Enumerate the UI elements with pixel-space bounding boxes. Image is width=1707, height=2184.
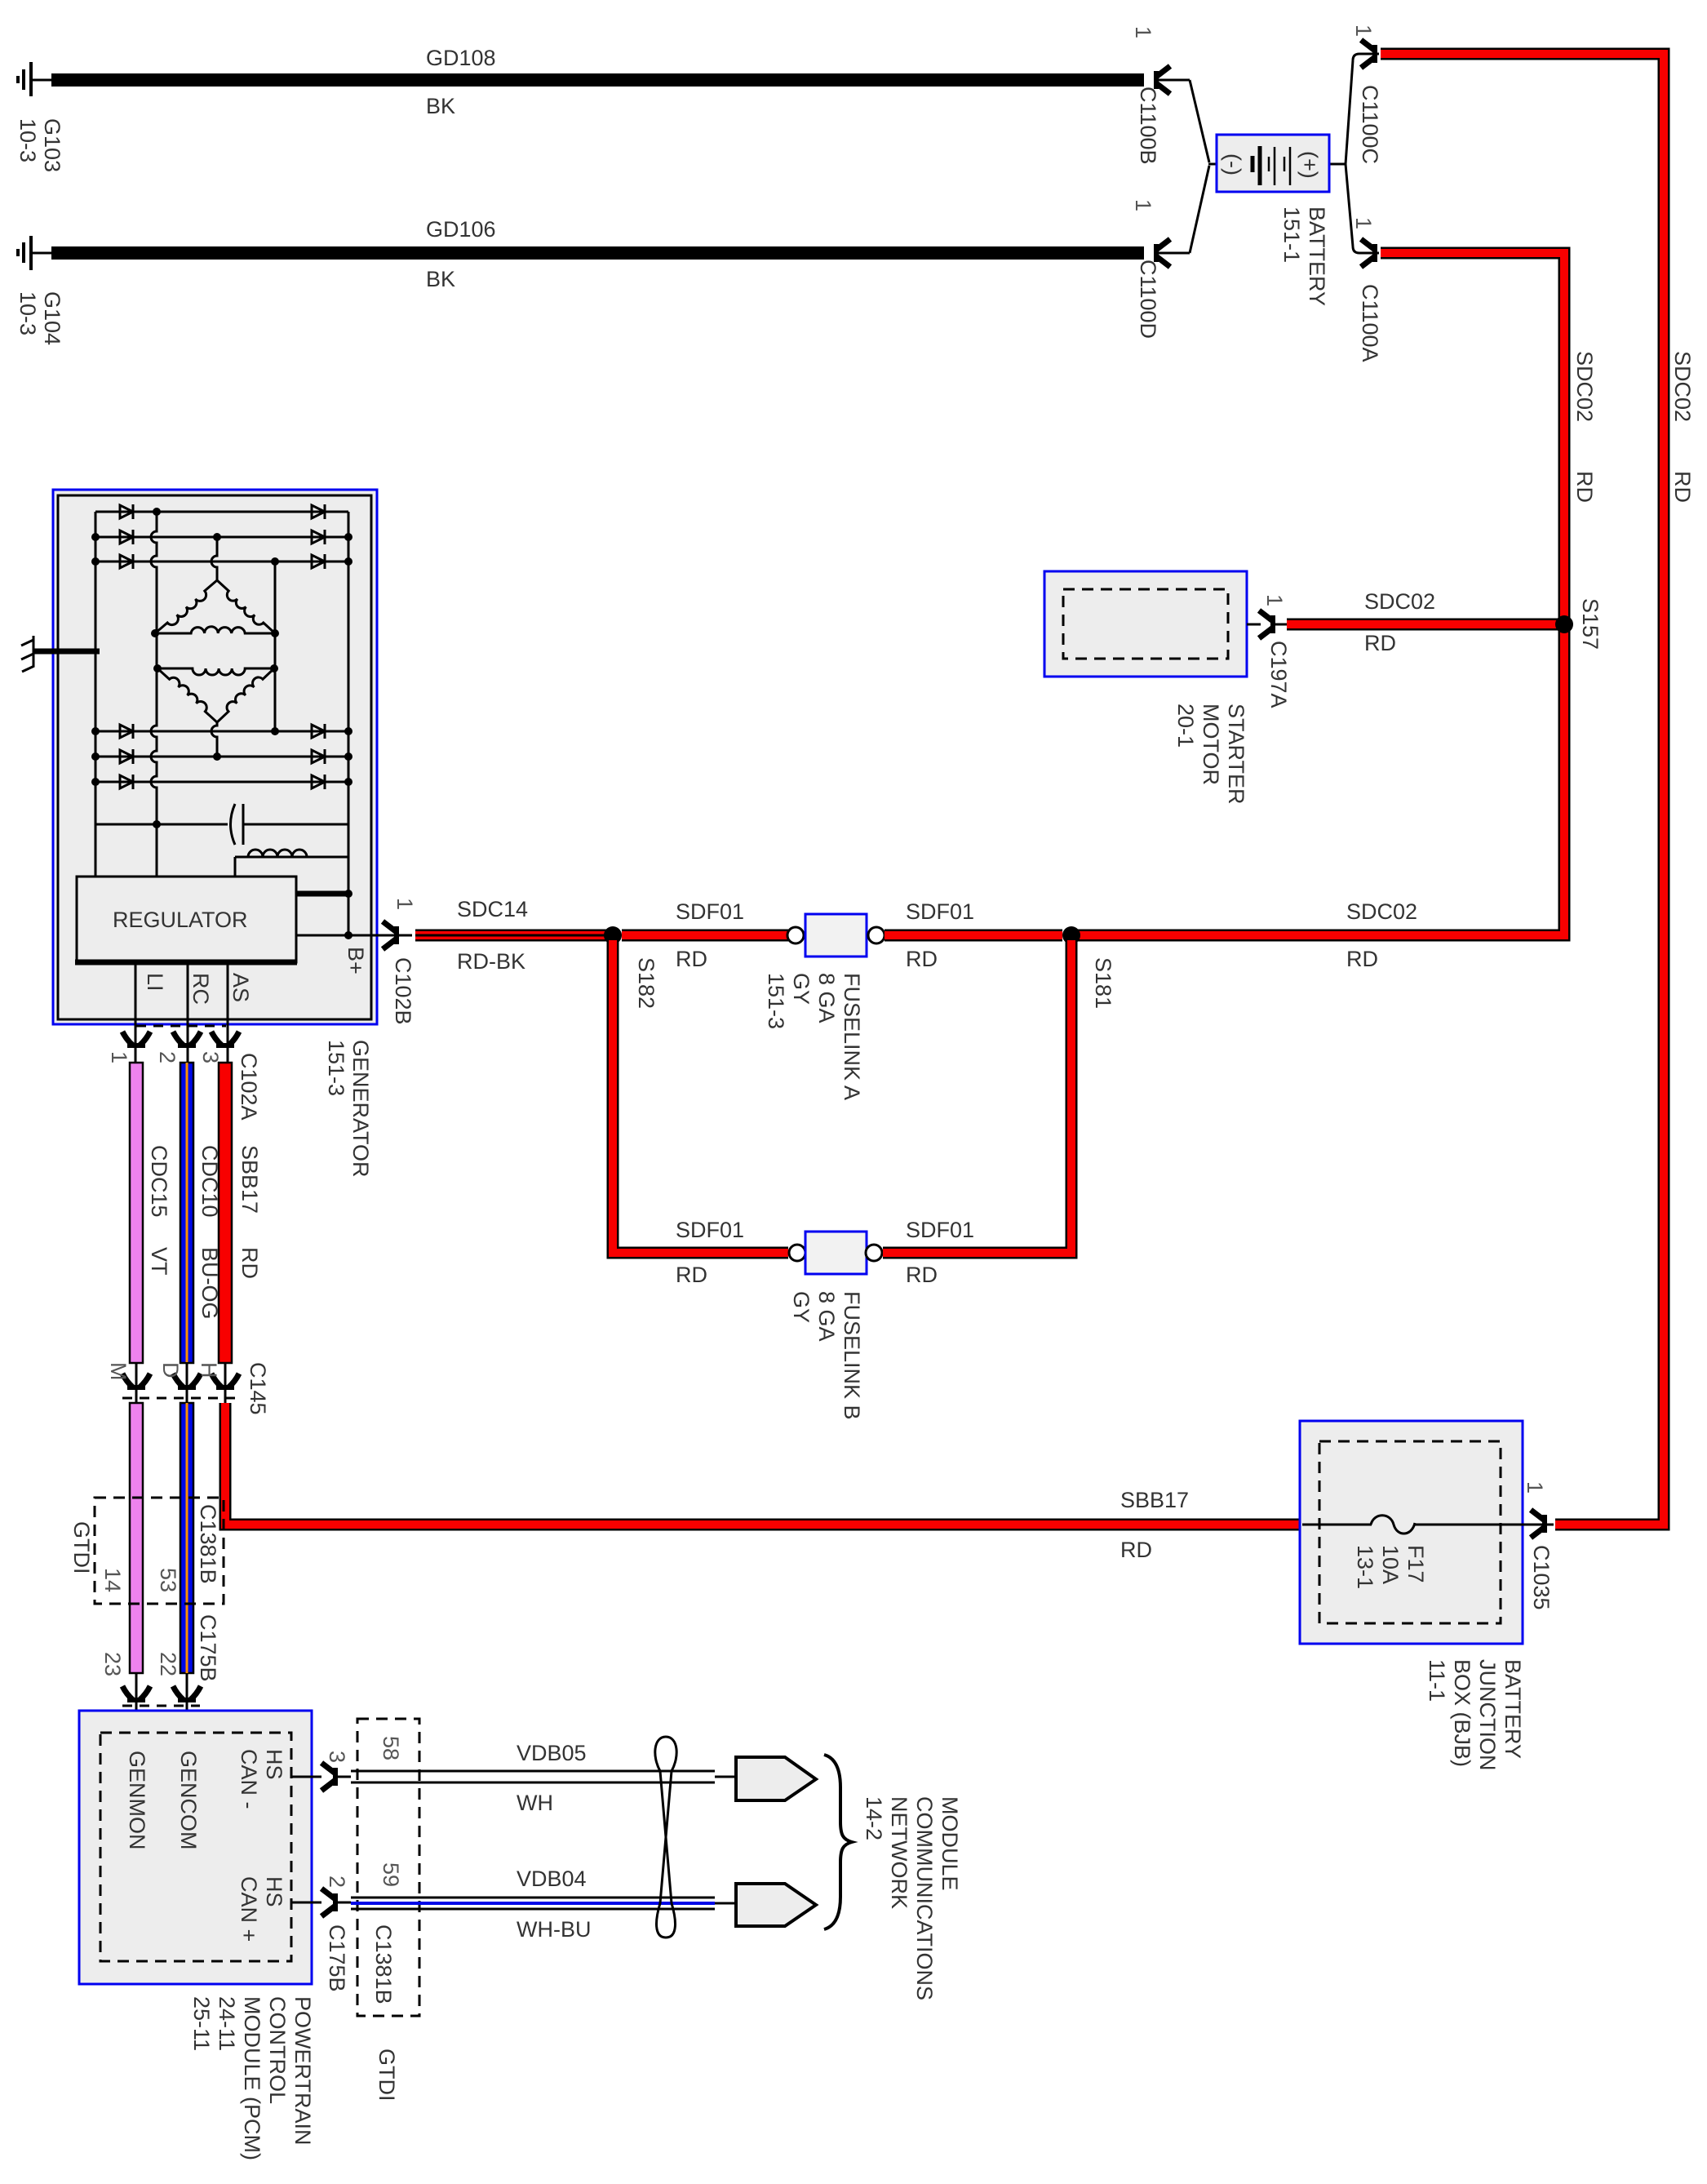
connector C145 xyxy=(106,1362,270,1415)
fuselink B xyxy=(789,1232,882,1274)
svg-text:REGULATOR: REGULATOR xyxy=(113,908,248,932)
connector C175B pin 3 HS CAN - xyxy=(291,1751,351,1791)
stator delta winding upper xyxy=(155,580,275,633)
svg-text:RC: RC xyxy=(188,973,213,1005)
ground G104 xyxy=(18,236,54,270)
connector C197A xyxy=(1247,594,1291,708)
junction S157 xyxy=(1555,615,1573,633)
svg-text:58: 58 xyxy=(379,1736,403,1760)
svg-text:C1035: C1035 xyxy=(1529,1545,1554,1610)
svg-text:WH-BU: WH-BU xyxy=(517,1917,591,1942)
fuse F17 10A xyxy=(1302,1516,1554,1534)
svg-text:3: 3 xyxy=(325,1751,349,1763)
wire SDC14 RD-BK xyxy=(415,930,610,942)
connector C175B arrows xyxy=(122,1673,201,1733)
svg-text:53: 53 xyxy=(156,1568,180,1592)
svg-text:AS: AS xyxy=(228,973,253,1002)
svg-text:14: 14 xyxy=(100,1568,125,1592)
wire GD106 BK xyxy=(51,246,1144,260)
junction S181 xyxy=(1062,926,1080,944)
svg-text:C1381B: C1381B xyxy=(371,1924,396,2004)
svg-text:GTDI: GTDI xyxy=(375,2049,399,2102)
svg-text:RD: RD xyxy=(237,1247,262,1279)
svg-text:1: 1 xyxy=(1131,26,1155,38)
generator junction dots xyxy=(91,508,352,939)
brace module communications network xyxy=(824,1755,852,1929)
network flag VDB05 xyxy=(736,1757,816,1800)
svg-text:SDF01: SDF01 xyxy=(906,899,974,924)
svg-text:RD: RD xyxy=(1120,1538,1152,1562)
svg-text:WH: WH xyxy=(517,1791,553,1815)
svg-text:GENMON: GENMON xyxy=(125,1751,149,1850)
svg-text:23: 23 xyxy=(100,1652,125,1676)
svg-text:RD: RD xyxy=(676,1263,707,1287)
regulator pins LI RC AS xyxy=(135,962,228,1063)
svg-text:RD: RD xyxy=(906,1263,938,1287)
svg-text:RD: RD xyxy=(676,947,707,971)
wire CDC10 BU-OG lower xyxy=(180,1403,193,1673)
wire SBB17 RD upper xyxy=(219,1063,232,1363)
connector C102A xyxy=(107,1026,261,1121)
svg-text:VT: VT xyxy=(147,1247,171,1276)
svg-text:1: 1 xyxy=(392,898,417,910)
svg-text:SDC02: SDC02 xyxy=(1364,589,1435,614)
svg-text:S157: S157 xyxy=(1578,598,1603,650)
svg-text:2: 2 xyxy=(325,1875,349,1888)
wire GD108 BK xyxy=(51,73,1144,87)
svg-text:C1100D: C1100D xyxy=(1136,260,1160,339)
svg-text:1: 1 xyxy=(107,1051,131,1063)
connector C1035 xyxy=(1523,1481,1554,1610)
svg-text:BK: BK xyxy=(426,267,455,291)
connector C102B xyxy=(383,898,417,1025)
svg-text:RD: RD xyxy=(1346,947,1378,971)
battery 151-1 xyxy=(1208,135,1346,192)
svg-text:SDC02: SDC02 xyxy=(1670,351,1695,422)
twisted pair symbol xyxy=(655,1737,676,1938)
connector C1100A xyxy=(1346,164,1382,362)
svg-text:VDB04: VDB04 xyxy=(517,1867,587,1891)
svg-text:GD106: GD106 xyxy=(426,217,496,242)
svg-text:SBB17: SBB17 xyxy=(237,1145,262,1214)
svg-text:1: 1 xyxy=(1351,24,1376,37)
svg-text:RD: RD xyxy=(906,947,938,971)
wire SBB17 RD lower to BJB xyxy=(225,1403,1302,1525)
svg-text:C102A: C102A xyxy=(237,1053,261,1121)
svg-text:D: D xyxy=(158,1362,183,1378)
svg-text:H: H xyxy=(197,1362,221,1378)
field inductor coil xyxy=(235,850,348,877)
svg-text:1: 1 xyxy=(1351,217,1376,229)
connector C1100D xyxy=(1131,166,1209,339)
svg-text:SDC02: SDC02 xyxy=(1346,899,1417,924)
svg-text:SDC02: SDC02 xyxy=(1572,351,1597,422)
svg-text:C1381B: C1381B xyxy=(196,1504,220,1584)
svg-text:C175B: C175B xyxy=(325,1924,349,1992)
wire SDF01 RD (S182 to fuselink A) xyxy=(622,930,788,942)
svg-text:(+): (+) xyxy=(1297,151,1322,179)
svg-text:BK: BK xyxy=(426,94,455,118)
svg-text:1: 1 xyxy=(1523,1481,1547,1494)
svg-text:SBB17: SBB17 xyxy=(1120,1488,1189,1512)
svg-text:F1710A13-1: F1710A13-1 xyxy=(1353,1545,1428,1589)
svg-text:GTDI: GTDI xyxy=(69,1521,94,1574)
wire CDC15 VT upper xyxy=(130,1063,143,1363)
rectifier diodes left xyxy=(120,504,133,789)
connector C1100B xyxy=(1131,26,1209,165)
svg-text:1: 1 xyxy=(1131,199,1155,211)
connector C175B pin 2 HS CAN + xyxy=(291,1875,351,1916)
wire CDC10 BU-OG upper xyxy=(180,1063,193,1363)
wire SDC02 RD outer (C1100C to BJB) xyxy=(1381,54,1664,1525)
svg-text:C1100C: C1100C xyxy=(1358,85,1382,164)
generator case ground xyxy=(21,636,100,672)
svg-text:59: 59 xyxy=(379,1862,403,1887)
fuselink A xyxy=(787,914,885,957)
generator 151-3 box xyxy=(53,490,377,1024)
svg-text:(-): (-) xyxy=(1221,153,1245,175)
wire SDC02 RD (starter to S157) xyxy=(1287,619,1560,631)
svg-text:B+: B+ xyxy=(344,947,368,974)
rectifier diodes right xyxy=(312,504,325,789)
svg-text:C197A: C197A xyxy=(1266,641,1291,708)
wire SDF01 RD loop (S182 to fuselink B) xyxy=(613,940,788,1253)
svg-text:C1100B: C1100B xyxy=(1136,87,1160,165)
regulator B+ links xyxy=(296,894,412,935)
svg-text:C175B: C175B xyxy=(196,1614,220,1682)
svg-text:2: 2 xyxy=(155,1051,180,1063)
svg-text:SDF01: SDF01 xyxy=(676,1218,744,1242)
regulator xyxy=(75,877,297,962)
capacitor xyxy=(231,804,244,845)
svg-text:1: 1 xyxy=(1262,594,1287,606)
network flag VDB04 xyxy=(736,1884,816,1926)
svg-text:VDB05: VDB05 xyxy=(517,1741,587,1765)
wire SDC02 RD inner (C1100A via S157 to S181) xyxy=(1077,253,1564,935)
svg-text:M: M xyxy=(106,1362,131,1381)
wire VDB05 WH xyxy=(351,1741,736,1815)
svg-text:RD: RD xyxy=(1364,631,1396,655)
svg-text:CDC15: CDC15 xyxy=(147,1145,171,1218)
wire VDB04 WH-BU xyxy=(351,1867,736,1942)
powertrain control module box xyxy=(79,1711,312,1984)
svg-text:GENCOM: GENCOM xyxy=(176,1751,201,1850)
svg-text:RD: RD xyxy=(1572,471,1597,503)
svg-text:SDC14: SDC14 xyxy=(457,897,528,921)
GTDI PCM harness dashed box xyxy=(357,1719,419,2016)
svg-text:RD: RD xyxy=(1670,471,1695,503)
ground G103 xyxy=(18,62,54,96)
junction S182 xyxy=(604,926,622,944)
GTDI harness dashed box xyxy=(95,1498,224,1604)
svg-text:S182: S182 xyxy=(634,957,658,1009)
svg-text:SDF01: SDF01 xyxy=(676,899,744,924)
connector C1100C xyxy=(1346,24,1382,164)
wire CDC15 VT lower xyxy=(130,1403,143,1673)
stator delta winding lower xyxy=(157,668,274,722)
svg-text:C1100A: C1100A xyxy=(1358,284,1382,362)
starter motor 20-1 xyxy=(1044,571,1247,677)
battery junction box xyxy=(1300,1421,1523,1644)
wire SDF01 RD (fuselink B to S181) xyxy=(883,940,1071,1253)
svg-text:22: 22 xyxy=(156,1652,180,1676)
svg-text:SDF01: SDF01 xyxy=(906,1218,974,1242)
svg-text:C102B: C102B xyxy=(391,957,415,1025)
svg-text:C145: C145 xyxy=(246,1362,270,1415)
svg-text:S181: S181 xyxy=(1091,957,1115,1009)
svg-text:RD-BK: RD-BK xyxy=(457,949,525,974)
svg-text:LI: LI xyxy=(143,973,167,992)
generator bus wires xyxy=(95,512,348,935)
svg-text:GD108: GD108 xyxy=(426,46,496,70)
wire SDF01 RD (fuselink A to S181) xyxy=(885,930,1062,942)
